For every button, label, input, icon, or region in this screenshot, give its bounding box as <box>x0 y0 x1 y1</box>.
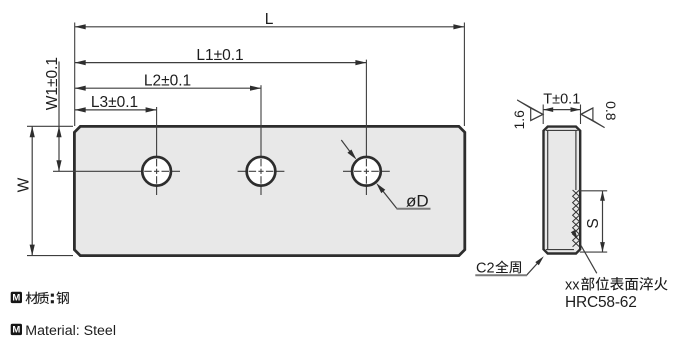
leader øD upper segment <box>341 140 352 154</box>
svg-text:xx: xx <box>565 277 580 293</box>
note 材质:钢 <box>26 292 39 304</box>
surface finish symbol 0.8 (right) <box>581 108 605 128</box>
svg-text:L: L <box>265 11 274 28</box>
svg-text:W1±0.1: W1±0.1 <box>44 57 61 110</box>
side view outline <box>544 127 581 254</box>
svg-text:C2: C2 <box>476 260 495 276</box>
centerline vertical hole 2 / L2 extension <box>260 85 262 195</box>
hole1 center mark <box>144 170 152 172</box>
dimension S <box>602 191 604 252</box>
centerline vertical hole 3 / L1 extension <box>365 60 367 195</box>
svg-text:øD: øD <box>406 192 429 211</box>
svg-text:L1±0.1: L1±0.1 <box>196 47 243 64</box>
svg-text:L2±0.1: L2±0.1 <box>144 72 191 89</box>
hole1 circle øD <box>142 157 171 186</box>
hole2 center mark <box>249 170 257 172</box>
leader surface hardening <box>581 246 597 274</box>
side view inner chamfer line right (above hardened zone) <box>575 130 577 190</box>
hole2 circle øD <box>247 157 276 186</box>
centerline vertical hole 1 / L3 extension <box>156 107 158 195</box>
badge M (material, English) <box>11 324 22 335</box>
extension line left edge <box>74 23 76 127</box>
dimension L3±0.1 <box>75 109 157 111</box>
badge M (material, Chinese) <box>11 292 22 303</box>
dimension W <box>31 126 33 255</box>
svg-text:1.6: 1.6 <box>511 110 527 130</box>
svg-text:HRC58-62: HRC58-62 <box>565 294 637 311</box>
plate: main front view of steel plate <box>74 126 464 255</box>
extension lines for S <box>579 190 608 192</box>
extension line right edge <box>463 23 465 127</box>
svg-text:M: M <box>12 325 20 336</box>
leader øD lower segment <box>381 188 397 208</box>
hole3 center mark <box>354 170 362 172</box>
extension line plate top-left for W/W1 <box>27 125 73 127</box>
svg-text:0.8: 0.8 <box>603 101 619 121</box>
dimension W1±0.1 <box>58 62 60 172</box>
hole3 circle øD <box>352 157 381 186</box>
side view inner chamfer line left <box>547 130 549 249</box>
svg-text:Material: Steel: Material: Steel <box>25 323 116 339</box>
dimension L1±0.1 <box>75 62 367 64</box>
centerline horizontal hole 2 <box>238 170 285 172</box>
extension line plate bottom-left for W <box>27 255 73 257</box>
hardened-zone zigzag hatch <box>573 190 580 247</box>
dimension L2±0.1 <box>75 87 261 89</box>
centerline horizontal hole 1 / W1 extension <box>53 170 180 172</box>
surface finish symbol 1.6 (left) <box>517 100 543 121</box>
dimension T±0.1 <box>543 109 580 111</box>
svg-text:W: W <box>16 177 33 192</box>
centerline horizontal hole 3 <box>343 170 390 172</box>
svg-text:L3±0.1: L3±0.1 <box>91 94 138 111</box>
svg-text:S: S <box>585 218 602 228</box>
svg-text:M: M <box>12 293 20 304</box>
side view inner chamfer line top <box>546 129 578 131</box>
dimension L <box>75 26 465 28</box>
svg-text:T±0.1: T±0.1 <box>543 91 580 107</box>
leader øD underline <box>397 208 431 210</box>
side view inner chamfer line bottom <box>546 249 574 251</box>
extension lines for T <box>542 105 544 125</box>
leader C2全周 <box>527 260 541 275</box>
